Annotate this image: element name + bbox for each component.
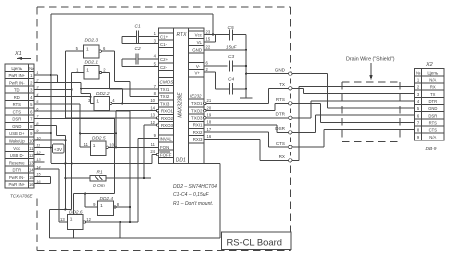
svg-text:5: 5 xyxy=(76,46,79,51)
power rail vertical continuation down to y163 xyxy=(50,74,52,163)
svg-text:3: 3 xyxy=(417,92,420,97)
svg-text:CTS: CTS xyxy=(13,109,22,114)
vertical wire x=71.7 down to rail y163 xyxy=(71,90,73,164)
svg-text:Reserve: Reserve xyxy=(9,160,25,165)
svg-text:C5: C5 xyxy=(228,25,234,31)
wire TXO2 pin 20 to RTS border xyxy=(207,103,291,110)
svg-text:CTS: CTS xyxy=(429,128,438,133)
wire DD2.3 output to TXI2 pin 8 xyxy=(102,51,159,96)
capacitor C4 xyxy=(228,77,234,95)
svg-text:15: 15 xyxy=(206,37,211,42)
svg-text:TXI2: TXI2 xyxy=(160,94,170,99)
svg-text:RXO3: RXO3 xyxy=(161,123,174,128)
svg-text:6: 6 xyxy=(30,109,33,114)
svg-text:TX: TX xyxy=(430,92,436,97)
svg-text:1: 1 xyxy=(100,203,103,209)
connector X1 type label TCXA706E xyxy=(10,193,34,198)
connector X2 label xyxy=(425,62,433,68)
svg-text:1: 1 xyxy=(30,73,33,78)
connector X2 type label DB-9 xyxy=(426,146,437,152)
svg-text:3: 3 xyxy=(154,38,157,43)
svg-text:DD2.3: DD2.3 xyxy=(85,38,99,44)
svg-text:Vcc: Vcc xyxy=(195,33,203,38)
svg-text:C1-: C1- xyxy=(160,42,168,47)
svg-text:RXI3: RXI3 xyxy=(193,137,203,142)
svg-text:C1-C4 – 0,15uF: C1-C4 – 0,15uF xyxy=(173,192,210,198)
wire GND net tap from bus to border xyxy=(245,73,290,75)
svg-text:+3V: +3V xyxy=(54,147,63,152)
svg-text:5: 5 xyxy=(30,102,33,107)
svg-text:C1+: C1+ xyxy=(160,35,169,40)
svg-text:8: 8 xyxy=(417,128,420,133)
svg-text:8: 8 xyxy=(36,121,39,126)
svg-text:4: 4 xyxy=(36,92,39,97)
svg-text:10: 10 xyxy=(36,135,41,140)
svg-text:WakeUp: WakeUp xyxy=(9,139,26,144)
svg-text:6: 6 xyxy=(36,106,39,111)
notes text block xyxy=(173,184,217,207)
wire C1 loop pin1 to pin3 xyxy=(122,37,152,44)
svg-text:21: 21 xyxy=(207,98,212,103)
svg-text:C2-: C2- xyxy=(160,65,168,70)
svg-text:12: 12 xyxy=(29,153,34,158)
wire X1 row12 stub xyxy=(34,154,44,156)
connector X1 label xyxy=(14,51,22,57)
wire X1 row3 TD to DD2.1 input xyxy=(34,73,84,91)
wire C2 loop pin4 to pin5 xyxy=(122,59,152,67)
svg-text:R1 – Don't mount.: R1 – Don't mount. xyxy=(173,201,213,207)
svg-text:10: 10 xyxy=(29,139,34,144)
svg-text:RXI2: RXI2 xyxy=(193,130,203,135)
net label DTR xyxy=(276,112,286,117)
svg-text:9: 9 xyxy=(417,135,420,140)
svg-text:RTX: RTX xyxy=(177,32,188,38)
wire X1 row6 CTS down to DD2.6 output node xyxy=(34,111,131,222)
svg-text:RS-CL Board: RS-CL Board xyxy=(227,237,282,248)
svg-text:1: 1 xyxy=(70,217,73,223)
svg-text:8: 8 xyxy=(117,202,120,207)
svg-text:C1: C1 xyxy=(135,24,141,30)
wire DD2.5 output to FON pin 11 xyxy=(109,146,159,148)
svg-text:DB-9: DB-9 xyxy=(426,146,437,152)
wire RX to X2 pin 2 xyxy=(292,86,415,160)
wire DD2.4 output junction xyxy=(116,206,130,208)
wire INVAL pin 9 to DD2.6 output vertical xyxy=(138,138,158,140)
svg-text:N/A: N/A xyxy=(429,135,436,140)
capacitor C3 xyxy=(228,54,234,72)
svg-text:1: 1 xyxy=(76,67,79,72)
wire VL pin 15 jog to Vcc node xyxy=(213,35,215,42)
svg-text:4: 4 xyxy=(112,98,115,103)
svg-text:Vcc: Vcc xyxy=(13,146,20,151)
chip DD1 left pin stubs and pin numbers xyxy=(150,31,158,154)
svg-text:6: 6 xyxy=(417,113,420,118)
wire TXO1 pin 21 to TX border xyxy=(207,88,291,103)
svg-text:11: 11 xyxy=(151,142,156,147)
svg-text:DTR: DTR xyxy=(276,112,286,117)
svg-text:10: 10 xyxy=(150,98,155,103)
svg-text:DSR: DSR xyxy=(275,126,285,131)
svg-text:RXI1: RXI1 xyxy=(193,123,203,128)
vertical x=71.7 continues to bottom junction xyxy=(71,162,73,209)
wire GND to X2 pin 5 xyxy=(292,74,415,108)
svg-text:9: 9 xyxy=(154,133,157,138)
svg-text:TXI3: TXI3 xyxy=(160,101,170,106)
inverter gate DD2.1 xyxy=(76,60,106,80)
wire R1 right side to FOFF pin 24 xyxy=(106,177,151,179)
net label RX xyxy=(279,154,285,159)
svg-text:C2: C2 xyxy=(135,46,141,52)
wire DD2.4 input branch from y193 xyxy=(84,193,98,208)
svg-text:V+: V+ xyxy=(195,70,201,75)
svg-text:1: 1 xyxy=(86,47,89,53)
net label RTS xyxy=(276,97,285,102)
svg-text:TCXA706E: TCXA706E xyxy=(10,193,34,198)
drain wire label xyxy=(346,57,395,63)
bottom rail wire xyxy=(50,164,220,239)
svg-text:1: 1 xyxy=(86,68,89,74)
svg-text:V-: V- xyxy=(196,64,201,69)
svg-text:R1: R1 xyxy=(97,169,103,175)
svg-text:1: 1 xyxy=(96,98,99,104)
svg-text:18: 18 xyxy=(207,120,212,125)
svg-text:12: 12 xyxy=(86,217,91,222)
wire X1 row2 PwR IN- run xyxy=(34,82,123,104)
svg-text:TX: TX xyxy=(279,82,285,87)
svg-text:PwR IN+: PwR IN+ xyxy=(8,182,25,187)
svg-text:9: 9 xyxy=(93,202,96,207)
svg-text:8: 8 xyxy=(30,124,33,129)
chip DD1 left column cells and labels xyxy=(159,33,175,158)
svg-text:5: 5 xyxy=(154,61,157,66)
resistor R1 (0 Ohm, not mounted) xyxy=(90,169,106,189)
wire TX to X2 pin 3 xyxy=(292,88,415,93)
capacitor C1 xyxy=(135,24,141,43)
chip DD1 right column cells and labels xyxy=(189,31,205,143)
svg-text:4: 4 xyxy=(417,99,420,104)
svg-text:15: 15 xyxy=(29,175,34,180)
svg-text:RD: RD xyxy=(14,95,20,100)
svg-text:7: 7 xyxy=(154,84,157,89)
svg-text:TXI1: TXI1 xyxy=(160,87,170,92)
svg-text:9: 9 xyxy=(36,128,39,133)
net label GND xyxy=(275,67,286,72)
+3V supply box xyxy=(53,144,65,153)
svg-text:12: 12 xyxy=(150,120,155,125)
chip DD1 reference designator DD1 xyxy=(176,158,186,164)
svg-text:2: 2 xyxy=(206,67,209,72)
wire DD2.6 output run xyxy=(86,139,139,223)
svg-text:GND: GND xyxy=(275,67,286,72)
svg-text:DSR: DSR xyxy=(428,113,437,118)
chip DD1 right pin stubs and pin numbers xyxy=(204,29,246,139)
svg-text:DSR: DSR xyxy=(12,117,21,122)
wire RXI3 pin 16 to RX border xyxy=(204,139,290,160)
wire R1 left side down to bottom rail xyxy=(50,177,90,238)
wire DSR to X2 pin 6 xyxy=(292,115,415,132)
svg-text:VL: VL xyxy=(197,40,203,45)
wire X1 row5 RTS to DD2.5 input xyxy=(34,104,90,147)
wire X1 row13 stub xyxy=(34,161,44,163)
ground symbol at capacitor bus xyxy=(240,89,252,98)
RS-CL Board title box xyxy=(222,232,292,250)
connector X1 table xyxy=(5,64,34,188)
svg-text:6: 6 xyxy=(103,46,106,51)
svg-text:13: 13 xyxy=(36,157,41,162)
svg-text:RTS: RTS xyxy=(276,97,285,102)
wire Vcc node to capacitor C5 and bus xyxy=(215,34,246,36)
svg-text:9: 9 xyxy=(30,131,33,136)
svg-text:20: 20 xyxy=(207,105,212,110)
wire X1 row11 Vcc to +3V xyxy=(34,146,53,148)
svg-text:2: 2 xyxy=(35,77,39,82)
capacitor C2 xyxy=(135,46,141,64)
svg-text:15uF: 15uF xyxy=(226,44,238,49)
cable shield dashed box xyxy=(342,82,400,142)
chip DD1 inversion bubbles on RXO outputs and FOFF xyxy=(156,109,159,155)
svg-text:4: 4 xyxy=(30,95,33,100)
svg-text:Цепь: Цепь xyxy=(427,70,438,75)
rail y163 horizontal xyxy=(51,162,152,164)
svg-text:14: 14 xyxy=(29,168,34,173)
border crossing circles on dashed board edge xyxy=(289,72,292,162)
svg-text:Drain Wire ("Shield"): Drain Wire ("Shield") xyxy=(346,57,395,63)
net label DSR xyxy=(275,126,285,131)
svg-text:C3: C3 xyxy=(228,54,234,60)
svg-text:3: 3 xyxy=(36,85,39,90)
wire FOFF pin 24 jog to rail xyxy=(152,155,156,164)
wire C4 row: V+ pin 2 jog down through C4 to bus xyxy=(215,72,247,90)
svg-text:7: 7 xyxy=(36,114,39,119)
svg-text:DTR: DTR xyxy=(428,99,437,104)
svg-text:FOFF: FOFF xyxy=(160,153,172,158)
inverter gate DD2.6 xyxy=(60,210,92,230)
svg-text:GND: GND xyxy=(12,124,21,129)
svg-text:8: 8 xyxy=(154,91,157,96)
svg-text:23: 23 xyxy=(206,29,211,34)
svg-text:DTR: DTR xyxy=(12,168,21,173)
svg-text:6: 6 xyxy=(206,61,209,66)
svg-text:X1: X1 xyxy=(14,51,22,57)
wire X1 row9 USB D+ to rail vertical xyxy=(34,132,52,134)
inverter gate DD2.3 xyxy=(76,38,106,59)
power rail wire from X1 row1 to DD1 Vcc pin 23 xyxy=(34,14,213,82)
svg-text:1: 1 xyxy=(417,78,420,83)
svg-text:TD: TD xyxy=(14,88,20,93)
svg-text:TXO2: TXO2 xyxy=(191,108,203,113)
inverter gate DD2.5 xyxy=(84,135,115,155)
svg-text:PwR IN-: PwR IN- xyxy=(9,80,25,85)
svg-text:MAX3238E: MAX3238E xyxy=(178,92,184,118)
svg-text:RTS: RTS xyxy=(13,102,22,107)
junction dot Vcc node xyxy=(212,34,214,36)
wire CTS to X2 pin 8 xyxy=(292,130,415,148)
svg-text:1: 1 xyxy=(93,143,96,149)
X1 external pin numbers xyxy=(35,70,41,184)
wire RXI1 pin 18 to DSR border xyxy=(204,125,290,132)
svg-text:13: 13 xyxy=(29,160,34,165)
svg-text:RXO1: RXO1 xyxy=(161,109,174,114)
svg-text:0 Om: 0 Om xyxy=(93,183,105,189)
svg-text:№: № xyxy=(416,70,421,75)
connector X1 arrow xyxy=(17,57,31,60)
wire RXI2 pin 17 to CTS border xyxy=(204,132,290,147)
svg-text:Цепь: Цепь xyxy=(11,66,22,71)
svg-text:4: 4 xyxy=(154,54,157,59)
wire X1 row14 DTR to DD2.6 input xyxy=(34,169,67,222)
svg-text:14: 14 xyxy=(150,105,155,110)
connector X2 table xyxy=(415,69,445,141)
wire X1 row4 RD to DD2.2 input xyxy=(34,94,94,104)
wire RTS to X2 pin 7 xyxy=(292,103,415,122)
svg-text:5: 5 xyxy=(36,99,39,104)
svg-text:13: 13 xyxy=(60,217,65,222)
svg-text:1: 1 xyxy=(36,70,38,75)
svg-text:2: 2 xyxy=(417,85,420,90)
svg-text:7: 7 xyxy=(417,121,420,126)
board dashed outline RS-CL Board boundary xyxy=(37,7,290,251)
chip DD1 RTX header xyxy=(177,32,188,38)
svg-text:DD1: DD1 xyxy=(176,158,186,164)
svg-text:RTS: RTS xyxy=(429,121,438,126)
wire X1 row7 DSR down to y193 run xyxy=(34,118,131,238)
svg-text:CTS: CTS xyxy=(276,141,285,146)
svg-text:RX: RX xyxy=(279,154,285,159)
wire DD2.6 output tap down to bottom rail xyxy=(119,221,121,238)
wire DD2.2 output to TXI3 pin 10 xyxy=(112,102,159,104)
wire X1 row15 to row16 join loop xyxy=(34,176,51,183)
svg-text:5: 5 xyxy=(417,106,420,111)
svg-text:16: 16 xyxy=(29,182,34,187)
svg-text:IE232: IE232 xyxy=(190,94,202,99)
svg-text:№: № xyxy=(29,66,34,71)
wire DD2.3 input from RXO2 xyxy=(66,51,156,118)
svg-text:RXO2: RXO2 xyxy=(161,116,174,121)
junction dot bus at GND pin row xyxy=(245,49,247,51)
capacitor bus vertical (GND bus) xyxy=(245,35,247,89)
svg-text:DD2 – SN74HCT04: DD2 – SN74HCT04 xyxy=(173,184,217,190)
svg-text:7: 7 xyxy=(30,117,33,122)
svg-text:2: 2 xyxy=(103,67,106,72)
wire X1 row8 GND jog to x65 vertical xyxy=(34,126,65,136)
wire DD2.1 output to TXI1 pin 7 xyxy=(102,73,159,90)
svg-text:GND: GND xyxy=(192,47,202,52)
svg-text:13: 13 xyxy=(150,113,155,118)
inverter gate DD2.4 xyxy=(93,196,120,216)
svg-text:USB D+: USB D+ xyxy=(9,131,25,136)
svg-text:C2+: C2+ xyxy=(160,57,169,62)
svg-text:3: 3 xyxy=(30,88,33,93)
net label TX xyxy=(279,82,285,87)
svg-text:16: 16 xyxy=(207,134,212,139)
svg-text:TXO3: TXO3 xyxy=(191,116,203,121)
wire X1 row10 WakeUp xyxy=(34,136,67,210)
svg-text:PwR IN+: PwR IN+ xyxy=(8,73,25,78)
wire C3 row: V- pin 6 through C3 to bus xyxy=(232,65,247,67)
svg-text:19: 19 xyxy=(207,113,212,118)
svg-text:USB D-: USB D- xyxy=(10,153,25,158)
chip DD1 MAX3238E vertical part number xyxy=(178,92,184,118)
wire DTR to X2 pin 4 xyxy=(292,101,415,118)
svg-text:RX: RX xyxy=(430,85,436,90)
svg-text:FON: FON xyxy=(160,145,169,150)
svg-text:X2: X2 xyxy=(425,62,433,68)
svg-text:22: 22 xyxy=(206,45,211,50)
svg-text:17: 17 xyxy=(207,127,212,132)
svg-text:11: 11 xyxy=(36,143,40,148)
svg-text:GND: GND xyxy=(428,106,437,111)
drain wire arrow xyxy=(369,63,373,81)
wire RXO1 pin 14 to DD2.5 loop xyxy=(80,111,156,149)
svg-text:TXO1: TXO1 xyxy=(191,101,203,106)
net label CTS xyxy=(276,141,285,146)
svg-text:C4: C4 xyxy=(228,77,234,83)
inverter gate DD2.2 xyxy=(88,91,115,111)
svg-text:24: 24 xyxy=(150,149,155,154)
wire RXO3 pin 12 to R1 / FOFF node xyxy=(143,125,156,179)
svg-text:1: 1 xyxy=(154,31,157,36)
svg-text:11: 11 xyxy=(29,146,34,151)
wire TXO3 pin 19 to DTR border xyxy=(207,117,291,119)
chip DD1 MAX3238E outline xyxy=(159,28,205,164)
svg-text:DD2.1: DD2.1 xyxy=(85,60,99,66)
svg-text:PwR IN-: PwR IN- xyxy=(9,175,25,180)
svg-text:CMOS: CMOS xyxy=(160,80,175,85)
svg-text:2: 2 xyxy=(30,80,33,85)
capacitor C5 xyxy=(226,25,238,50)
svg-text:N/A: N/A xyxy=(429,78,436,83)
chip DD1 inversion bubbles on TXO outputs xyxy=(204,102,207,119)
svg-text:INVAL: INVAL xyxy=(160,137,173,142)
